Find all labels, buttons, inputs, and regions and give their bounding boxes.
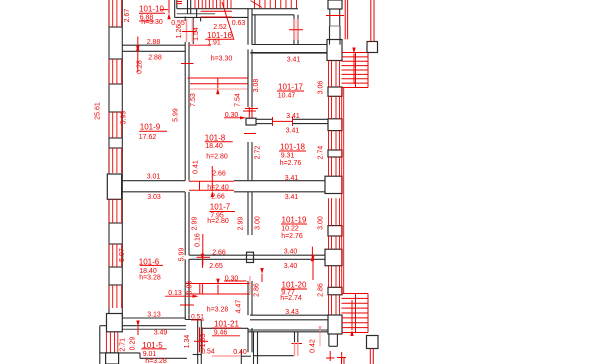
right wall pier y87: [328, 87, 342, 96]
dim 7.54: [234, 93, 241, 107]
dim 3.41 above H4: [285, 175, 299, 182]
right wall window y60.5: [329, 61, 340, 88]
svg-text:2.99: 2.99: [192, 217, 199, 231]
svg-text:1.54: 1.54: [193, 27, 200, 41]
svg-text:3.13: 3.13: [147, 312, 161, 319]
svg-text:5.99: 5.99: [173, 108, 180, 122]
dim 2.66 above H6 centre: [212, 250, 226, 257]
dim h=3.28 room 101-21: [207, 307, 229, 314]
svg-text:10.47: 10.47: [278, 93, 296, 100]
bottom-right room left wall: [254, 332, 258, 364]
dim h=3.28 room 101-5: [145, 358, 167, 364]
right wall window y294.8: [329, 295, 340, 315]
dim arrow 2.88 lower: [136, 46, 139, 72]
wall H1: [250, 45, 329, 53]
dim 2.72: [255, 146, 262, 160]
svg-text:2.52: 2.52: [213, 24, 227, 31]
svg-text:101-7: 101-7: [210, 203, 231, 212]
lower external stair: [342, 294, 369, 333]
dim 3.41 above H3: [286, 113, 300, 120]
svg-text:3.40: 3.40: [284, 249, 298, 256]
wall V2 lower: [185, 259, 189, 319]
right wall window y96.3: [329, 96, 340, 119]
dim 1.91: [189, 39, 221, 46]
corridor bottom wall: [193, 350, 251, 364]
label 101-19: [281, 216, 307, 225]
dim arrow at H6 right: [311, 247, 314, 262]
wall H2: [122, 45, 185, 51]
dim h=2.80 room 101-7: [207, 218, 229, 225]
svg-text:0.16: 0.16: [195, 233, 202, 247]
wall V3 top: [248, 9, 252, 18]
wall V2 mid (101-9/101-8): [185, 77, 189, 180]
closet wall: [192, 17, 194, 44]
bottom rooms divider wall: [295, 332, 298, 342]
door ticks bottom right: [326, 351, 346, 362]
dim tick top left: [160, 9, 168, 11]
dim 3.00 left: [255, 216, 262, 230]
svg-text:2.86: 2.86: [318, 283, 325, 297]
wall H4 right: [234, 181, 326, 192]
dim 0.30 opening: [224, 276, 247, 283]
label 101-21: [212, 320, 241, 329]
svg-text:2.71: 2.71: [119, 338, 126, 352]
svg-text:2.66: 2.66: [212, 171, 226, 178]
svg-text:101-20: 101-20: [282, 281, 307, 290]
dim 3.08: [253, 79, 260, 93]
left exterior wall outer line: [108, 0, 110, 318]
svg-text:3.00: 3.00: [255, 216, 262, 230]
dim 17.62: [139, 134, 157, 141]
svg-text:2.86: 2.86: [254, 283, 261, 297]
label 101-9: [139, 122, 167, 131]
svg-text:h=2.76: h=2.76: [281, 233, 303, 240]
wall V3 (101-20): [248, 281, 252, 315]
svg-text:1.63: 1.63: [200, 334, 207, 348]
dim 7.53: [190, 93, 197, 107]
dim 18.40 room 101-8: [205, 143, 223, 150]
dim 1.63: [200, 334, 207, 348]
left exterior wall inner line: [121, 0, 123, 318]
right wall pier y287.3: [328, 287, 342, 295]
dim 0.51: [191, 314, 204, 321]
svg-text:101-19: 101-19: [282, 216, 307, 225]
dim arrow 0.13: [311, 255, 314, 280]
marked partition bottom corridor: [194, 327, 208, 352]
svg-text:17.62: 17.62: [139, 134, 157, 141]
dim 10.22: [281, 226, 299, 233]
marked opening in V2 top: [182, 19, 196, 42]
top wall inner line: [177, 8, 298, 10]
svg-text:101-18: 101-18: [280, 143, 305, 152]
dim 2.86 left: [254, 283, 261, 297]
dim h=3.28 room 101-6: [139, 275, 161, 282]
dim 0.86: [186, 281, 193, 295]
dim h=2.76 room 101-18: [280, 160, 302, 167]
window in left wall y199: [109, 199, 122, 223]
dim 5.97: [119, 248, 126, 262]
lower-left wall bottom pier: [106, 353, 119, 364]
wall V3 (closet 0.63): [248, 17, 252, 44]
svg-text:3.41: 3.41: [287, 57, 301, 64]
top window hatch: [195, 0, 231, 8]
dim h=2.40: [207, 185, 229, 192]
dim 3.06: [318, 81, 325, 95]
wall V2 upper: [185, 42, 189, 77]
dim 5.99 V2 side: [179, 248, 186, 262]
dim 9.46: [212, 330, 240, 337]
marked door stub in V3: [245, 107, 258, 118]
left wall junction pier H4: [107, 174, 121, 199]
dim 5.99 left: [121, 111, 128, 125]
dim 9.01: [143, 351, 157, 358]
svg-text:0.42: 0.42: [310, 339, 317, 353]
right wall bottom pier: [328, 315, 342, 334]
dim 0.29: [130, 337, 137, 351]
svg-text:3.43: 3.43: [285, 309, 299, 316]
wall V5 stair hall right: [294, 15, 298, 45]
label 101-20: [281, 281, 307, 290]
dim 9.77: [281, 289, 295, 296]
removed wall b=3.30/101-8: [188, 78, 248, 89]
wall H4 marked centre: [189, 181, 234, 190]
dim 0.30 door: [224, 112, 246, 119]
dim 3.40 below H6: [284, 263, 298, 270]
lower stair rail: [342, 349, 374, 364]
svg-text:5.99: 5.99: [121, 111, 128, 125]
right wall window y236: [329, 236, 340, 249]
svg-text:101-8: 101-8: [205, 134, 226, 143]
svg-text:2.72: 2.72: [255, 146, 262, 160]
dim 3.43: [285, 309, 299, 316]
svg-text:h=2.80: h=2.80: [206, 153, 228, 160]
dim 9.31: [281, 153, 295, 160]
dim 18.40 room 101-6: [139, 268, 157, 275]
label 101-17: [277, 83, 304, 92]
upper stair treads: [251, 0, 297, 8]
dim 3.03: [147, 194, 161, 201]
dim 0.42: [310, 339, 317, 353]
wall V3 (101-17): [248, 49, 252, 107]
clipped text fragment top: [177, 2, 183, 4]
svg-text:101-10: 101-10: [139, 5, 164, 14]
svg-text:1.26: 1.26: [176, 25, 183, 39]
svg-text:2.66: 2.66: [211, 194, 225, 201]
wall V3 (101-18): [248, 142, 252, 181]
door tick V3 101-17: [243, 110, 256, 112]
marked opening in V5: [289, 19, 303, 40]
dim 3.41 below H3: [286, 128, 300, 135]
dim 0.54: [201, 349, 215, 356]
svg-text:0.29: 0.29: [130, 337, 137, 351]
svg-text:2.67: 2.67: [124, 9, 131, 23]
dim 2.99 right: [238, 217, 245, 231]
dim 0.55: [171, 20, 185, 27]
svg-text:101-17: 101-17: [278, 83, 303, 92]
svg-text:101-9: 101-9: [140, 122, 161, 131]
marked opening corridor: [186, 276, 250, 294]
label 101-18: [279, 143, 306, 152]
dim 2.65: [209, 263, 223, 270]
right wall pier y0: [328, 0, 342, 9]
svg-text:3.41: 3.41: [285, 194, 299, 201]
svg-text:5.99: 5.99: [179, 248, 186, 262]
svg-text:101-21: 101-21: [214, 320, 239, 329]
right wall window y265.7: [329, 266, 340, 288]
svg-text:0.41: 0.41: [193, 160, 200, 174]
opening arrow up: [216, 279, 219, 294]
door tick H6 left: [197, 234, 211, 268]
left wall junction pier: [107, 314, 123, 332]
bottom-right corner walls: [329, 330, 338, 346]
wall V3 bottom: [248, 328, 252, 352]
dim 0.28: [136, 60, 143, 74]
svg-text:10.22: 10.22: [281, 226, 299, 233]
window in left wall y244: [109, 244, 122, 267]
right wall pier y39.5: [327, 40, 342, 61]
dim 3.00 right: [318, 216, 325, 230]
right wall pier y118.8: [328, 119, 342, 131]
svg-text:2.88: 2.88: [147, 39, 161, 46]
opening jamb marks: [200, 284, 203, 295]
wall V3 H3 junction pier: [246, 118, 256, 125]
left wall pier y84: [109, 84, 122, 112]
dim arrow 2.88 upper: [136, 37, 139, 51]
dim h=2.80 room 101-8: [206, 153, 228, 160]
svg-text:0.86: 0.86: [186, 281, 193, 295]
left wall pier y223: [109, 223, 122, 244]
svg-text:h=3.28: h=3.28: [145, 358, 167, 364]
101-5 bottom wall: [100, 353, 187, 358]
svg-text:h=3.30: h=3.30: [211, 56, 233, 63]
lower stair down-arrow: [350, 300, 353, 336]
left wall pier y27: [109, 27, 122, 59]
svg-text:3.03: 3.03: [147, 194, 161, 201]
dim 25.61: [95, 102, 102, 120]
upper stair up-arrow: [352, 48, 355, 85]
dim 3.13: [147, 312, 161, 319]
right wall pier y225.6: [328, 226, 342, 236]
svg-text:2.74: 2.74: [318, 146, 325, 160]
label 101-6: [139, 257, 163, 266]
window in left wall y0: [109, 0, 122, 27]
marked opening bottom wall: [212, 355, 241, 357]
svg-text:7.53: 7.53: [190, 93, 197, 107]
wall H6: [189, 255, 328, 259]
right wall window y198.2: [329, 198, 340, 225]
dim h=2.76 room 101-19: [281, 233, 303, 240]
svg-text:h=2.40: h=2.40: [207, 185, 229, 192]
dim 3.40 above H6: [284, 249, 298, 256]
window tick V3 101-18: [244, 133, 256, 135]
right wall plain section: [330, 26, 341, 45]
label 101-5: [141, 341, 166, 350]
svg-text:3.41: 3.41: [285, 175, 299, 182]
dim 0.13 line: [165, 290, 199, 298]
dim 3.41 top: [287, 57, 301, 64]
dim 2.86 right: [318, 283, 325, 297]
lower stair landing post: [367, 336, 379, 349]
dim h=3.30 room 101-10: [141, 19, 163, 26]
removed wall arrow: [216, 79, 219, 95]
right wall pier y150: [328, 150, 342, 157]
svg-text:2.99: 2.99: [238, 217, 245, 231]
dim arrow 0.42: [318, 326, 321, 346]
svg-text:18.40: 18.40: [205, 143, 223, 150]
dim 3.41 below H4: [285, 194, 299, 201]
dim 2.66 above H4: [212, 171, 226, 178]
wall V2 bottom: [185, 320, 201, 364]
wall H7 left: [107, 318, 187, 329]
svg-text:0.54: 0.54: [201, 349, 215, 356]
dim 5.99 right: [173, 108, 180, 122]
svg-text:3.40: 3.40: [284, 263, 298, 270]
dim 4.47: [236, 300, 243, 314]
stair hall room left wall: [252, 15, 255, 45]
svg-text:0.63: 0.63: [232, 20, 246, 27]
left wall pier y138: [109, 138, 122, 148]
dim 0.40: [233, 349, 247, 356]
svg-text:3.49: 3.49: [154, 329, 168, 336]
wall V3 junction pier: [247, 252, 254, 262]
stair rail at top corner: [345, 0, 347, 39]
lower-left wall step: [100, 326, 107, 364]
wall H4 left: [122, 181, 185, 192]
svg-text:3.08: 3.08: [253, 79, 260, 93]
svg-text:3.00: 3.00: [318, 216, 325, 230]
label 101-10: [139, 5, 165, 14]
svg-text:h=3.28: h=3.28: [207, 307, 229, 314]
svg-text:h=3.30: h=3.30: [141, 19, 163, 26]
dim arrow top wall: [167, 0, 170, 19]
dim 1.34: [184, 335, 191, 349]
right wall pier y176.2: [325, 176, 342, 193]
label 101-8: [205, 134, 233, 143]
wall H3: [256, 119, 328, 123]
dim 7.95: [210, 213, 224, 220]
bottom wall segment: [254, 355, 294, 357]
dim 0.16: [195, 233, 202, 247]
wall V3 (101-19): [248, 192, 252, 235]
wall V2 top stub: [185, 0, 191, 21]
label 101-16: [205, 31, 233, 40]
dim 2.52: [213, 24, 227, 31]
marked opening in top wall: [201, 11, 232, 17]
dim 2.88 above wall: [147, 39, 161, 46]
dim 1.26: [176, 25, 183, 39]
window in left wall y112: [109, 112, 122, 138]
dim 2.71: [119, 338, 126, 352]
svg-text:25.61: 25.61: [95, 102, 102, 120]
dim 10.47: [278, 93, 296, 100]
window tick top right wall: [326, 15, 344, 17]
window in lower-left wall: [106, 332, 117, 353]
top-left block walls: [175, 0, 248, 21]
svg-text:0.28: 0.28: [136, 60, 143, 74]
right wall pier y249.2: [325, 249, 342, 266]
dim 1.54: [193, 27, 200, 41]
svg-text:h=2.80: h=2.80: [207, 218, 229, 225]
dim 3.49: [154, 329, 168, 336]
upper stair rail: [371, 0, 374, 42]
dim 0.41: [193, 160, 200, 174]
svg-text:0.51: 0.51: [191, 314, 204, 321]
right wall window y157: [329, 157, 340, 176]
dim arrow 0.29: [136, 321, 139, 336]
upper external stair: [342, 53, 369, 88]
dim arrow 0.41 at H4: [211, 166, 214, 197]
wall H7 right: [250, 315, 330, 320]
svg-text:9.31: 9.31: [281, 153, 295, 160]
svg-text:0.40: 0.40: [233, 349, 247, 356]
window tick on V2 lower: [180, 304, 194, 306]
right wall window lines top: [330, 9, 340, 26]
leader line 101-16: [222, 2, 234, 40]
left wall pier y267: [109, 267, 122, 285]
stair connecting rail: [342, 88, 344, 294]
svg-text:2.88: 2.88: [148, 54, 162, 61]
wall V2 (101-6/101-7): [185, 192, 189, 255]
label 101-7: [210, 203, 236, 212]
stair hall room top: [252, 14, 294, 16]
svg-text:2.66: 2.66: [212, 250, 226, 257]
svg-text:h=2.74: h=2.74: [280, 295, 302, 302]
dim 2.88 below wall: [148, 54, 162, 61]
svg-text:3.01: 3.01: [147, 174, 161, 181]
svg-text:3.41: 3.41: [286, 128, 300, 135]
marked opening in H3: [272, 117, 293, 126]
dim 6.88: [139, 15, 154, 22]
wall H8: [202, 328, 329, 332]
dim 2.74: [318, 146, 325, 160]
svg-text:1.34: 1.34: [184, 335, 191, 349]
svg-text:7.54: 7.54: [234, 93, 241, 107]
svg-text:4.47: 4.47: [236, 300, 243, 314]
upper stair landing post: [367, 42, 378, 53]
svg-text:5.97: 5.97: [119, 248, 126, 262]
right wall window y130.6: [329, 131, 340, 150]
window in left wall y148: [109, 148, 122, 173]
svg-text:2.65: 2.65: [209, 263, 223, 270]
dim 2.67: [124, 9, 131, 23]
dim h=2.74 room 101-20: [280, 295, 302, 302]
window in left wall y285: [109, 285, 122, 308]
dim 3.01: [147, 174, 161, 181]
dim h=3.30 hall: [211, 56, 233, 63]
svg-text:0.30: 0.30: [225, 276, 239, 283]
window tick on V2: [181, 63, 194, 65]
dim 2.66 below H4: [211, 194, 225, 201]
svg-text:h=3.28: h=3.28: [139, 275, 161, 282]
svg-text:3.41: 3.41: [286, 113, 300, 120]
dim 0.63: [232, 20, 246, 27]
window in left wall y59: [109, 59, 122, 84]
svg-text:h=2.76: h=2.76: [280, 160, 302, 167]
small arrow room 101-20: [260, 268, 263, 282]
door tick bottom divider: [292, 342, 303, 356]
svg-text:3.06: 3.06: [318, 81, 325, 95]
dim 2.99 left: [192, 217, 199, 231]
